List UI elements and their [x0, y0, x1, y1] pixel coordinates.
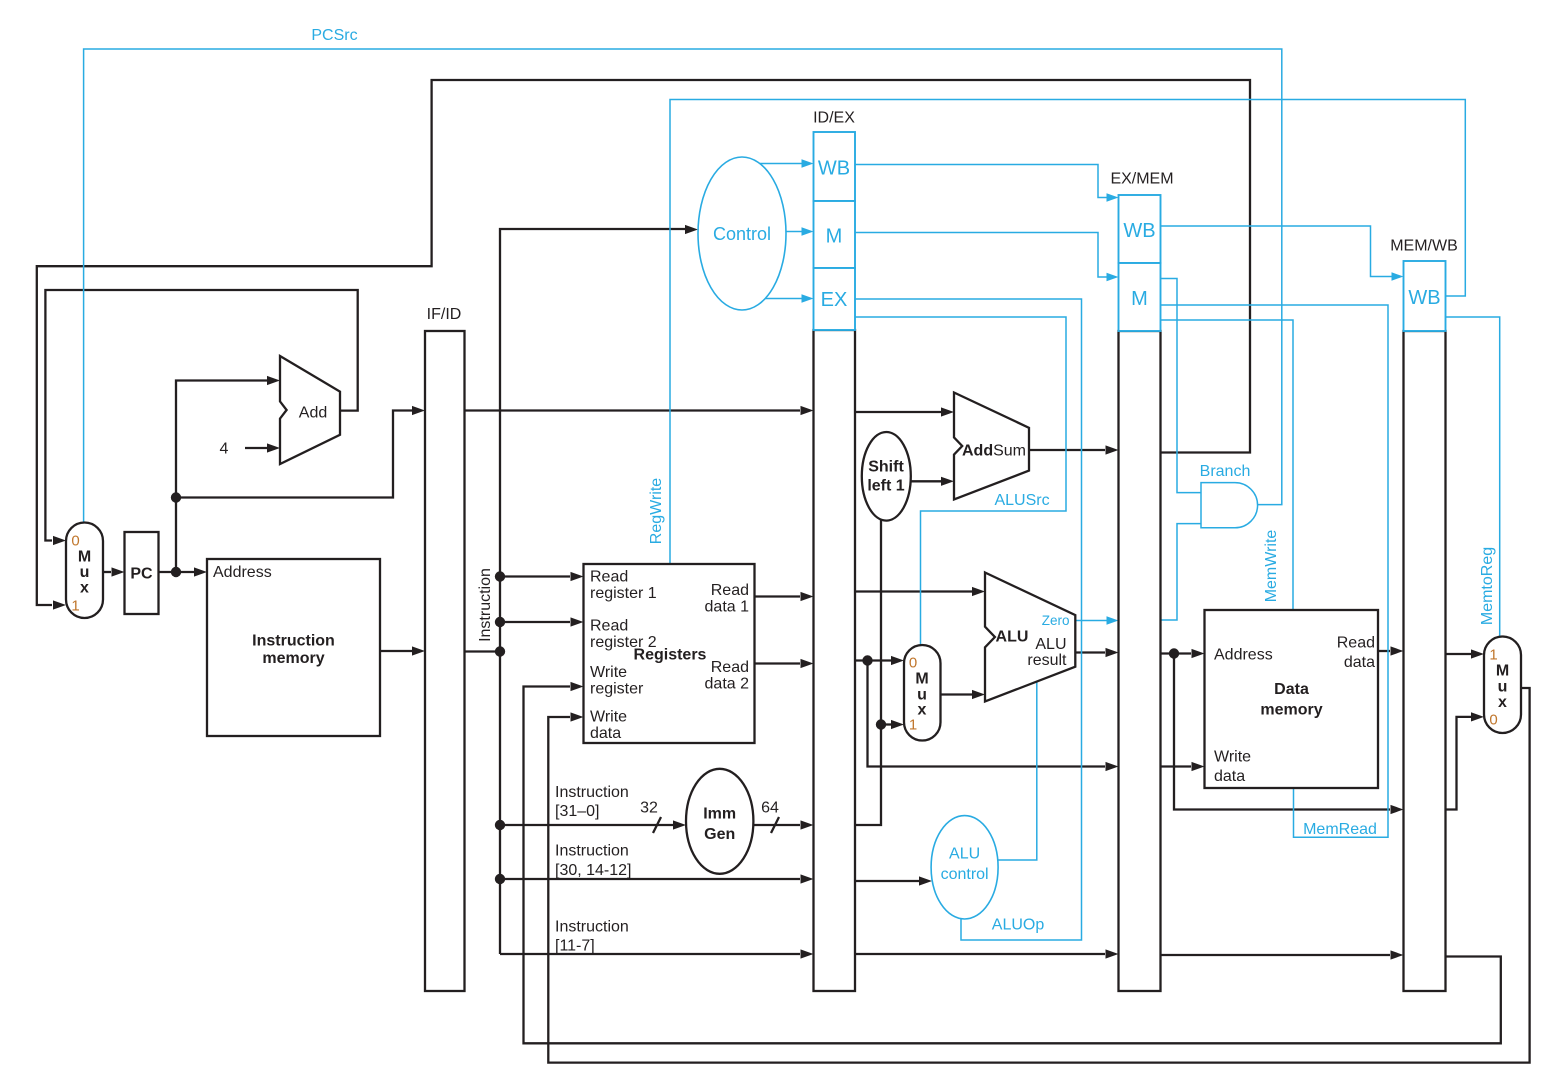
wire Instruction [31-0] to Imm Gen — [500, 824, 673, 826]
svg-text:data: data — [1214, 768, 1245, 785]
wire WB (blue): ID/EX to EX/MEM — [855, 165, 1107, 198]
wire MemRead (blue): EX/MEM M to Data memory — [1161, 305, 1389, 837]
wire Branch (blue): EX/MEM M to AND gate — [1161, 279, 1202, 493]
alu: main ALU — [985, 573, 1075, 702]
svg-text:Address: Address — [1214, 647, 1273, 664]
svg-text:PC: PC — [130, 566, 153, 583]
svg-text:PCSrc: PCSrc — [311, 27, 357, 44]
wire Instruction [11-7] to ID/EX — [500, 953, 800, 955]
wire branch-target: EX/MEM to PC mux input 1 — [37, 80, 1250, 605]
ellipse: Imm Gen — [686, 769, 753, 874]
svg-text:Registers: Registers — [634, 647, 707, 664]
wire Instruction [11-7]: EX/MEM to MEM/WB — [1161, 954, 1391, 956]
register ID/EX M section (blue) — [814, 201, 856, 268]
svg-text:memory: memory — [262, 650, 324, 667]
svg-text:AddSum: AddSum — [962, 443, 1026, 460]
wire MemWrite (blue): EX/MEM M to Data memory — [1161, 320, 1294, 612]
node: instruction bus junction (read reg 1) — [495, 571, 505, 581]
svg-text:Control: Control — [713, 224, 771, 244]
svg-text:MemRead: MemRead — [1303, 821, 1377, 838]
svg-text:result: result — [1027, 652, 1067, 669]
wire: Shift left 1 to Add Sum — [911, 480, 941, 482]
svg-text:ID/EX: ID/EX — [813, 110, 855, 127]
svg-text:MemtoReg: MemtoReg — [1479, 547, 1496, 625]
svg-text:0: 0 — [909, 655, 917, 672]
wire PCSrc (blue): branch AND gate to PC mux select — [84, 49, 1282, 524]
wire PC+4: Add output to PC mux input 0 — [45, 290, 357, 541]
register PC — [125, 532, 159, 614]
svg-text:Read: Read — [711, 582, 749, 599]
wire write data: EX/MEM to Data memory — [1161, 765, 1192, 767]
wire Read data 1: Registers to ID/EX — [755, 595, 801, 597]
svg-text:Write: Write — [590, 664, 627, 681]
wire M (blue): ID/EX to EX/MEM — [855, 233, 1107, 278]
svg-text:Write: Write — [590, 709, 627, 726]
wire Instruction [11-7]: ID/EX to EX/MEM — [855, 953, 1105, 955]
wire Read data 2: Registers to ID/EX — [755, 662, 801, 664]
svg-text:u: u — [80, 564, 90, 581]
svg-text:Address: Address — [213, 564, 272, 581]
svg-text:ALU: ALU — [949, 846, 980, 863]
wire RegWrite (blue): MEM/WB WB to Registers — [670, 100, 1465, 567]
svg-text:[30, 14-12]: [30, 14-12] — [555, 862, 632, 879]
wire: Instruction memory to IF/ID — [380, 650, 412, 652]
wire ALU result: MEM/WB to mux input 0 — [1446, 717, 1472, 810]
register EX/MEM M section (blue) — [1119, 263, 1161, 331]
svg-text:memory: memory — [1260, 702, 1322, 719]
mux: ALUSrc mux — [904, 645, 941, 741]
wire (blue): ALU control to ALU — [998, 681, 1037, 861]
wire ALUOp (blue): ID/EX EX to ALU control — [855, 299, 1082, 940]
mux: write-back mux — [1484, 637, 1521, 734]
node: read data 2 junction — [862, 655, 872, 665]
register EX/MEM (black section) — [1119, 331, 1161, 991]
svg-text:EX/MEM: EX/MEM — [1110, 171, 1173, 188]
svg-text:1: 1 — [1489, 647, 1497, 664]
wire: PC to Instruction memory Address — [159, 571, 195, 573]
register ID/EX (black section) — [814, 330, 856, 991]
svg-text:1: 1 — [909, 717, 917, 734]
node: instruction bus junction (imm field) — [495, 820, 505, 830]
wire Instruction [30,14-12] to ID/EX — [500, 878, 800, 880]
svg-text:WB: WB — [818, 158, 850, 180]
svg-text:Read: Read — [590, 569, 628, 586]
svg-text:M: M — [915, 671, 928, 688]
register EX/MEM WB section (blue) — [1119, 195, 1161, 263]
svg-text:EX: EX — [821, 289, 848, 311]
wire ALU result: ALU to EX/MEM — [1075, 651, 1105, 653]
svg-text:control: control — [941, 866, 989, 883]
svg-text:32: 32 — [640, 800, 658, 817]
wire Zero (blue): EX/MEM to AND gate — [1161, 524, 1202, 620]
svg-text:ALUSrc: ALUSrc — [994, 492, 1049, 509]
svg-text:4: 4 — [220, 441, 229, 458]
svg-text:data: data — [1344, 654, 1375, 671]
svg-text:register: register — [590, 681, 644, 698]
wire: constant 4 into Add — [245, 447, 267, 449]
node: immediate junction — [876, 719, 886, 729]
svg-text:Add: Add — [299, 405, 327, 422]
wire: instruction to Read register 2 — [500, 621, 570, 623]
svg-text:IF/ID: IF/ID — [427, 306, 462, 323]
svg-text:Gen: Gen — [704, 826, 735, 843]
gate: Branch AND gate — [1201, 483, 1258, 528]
wire: Imm Gen to ID/EX — [753, 824, 800, 826]
wire Add Sum output to EX/MEM — [1029, 449, 1105, 451]
wire (blue): Control to ID/EX EX — [765, 298, 802, 300]
wire Read data 2: ID/EX to ALUSrc mux and to EX/MEM write data — [855, 659, 891, 661]
wire ALU result: EX/MEM to Data memory Address and to MEM/WB — [1161, 652, 1192, 654]
svg-text:data 2: data 2 — [705, 676, 750, 693]
node: ALU result junction — [1169, 648, 1179, 658]
svg-text:ALUOp: ALUOp — [992, 917, 1045, 934]
wire Write data: mux to Registers — [548, 688, 1529, 1063]
wire (blue): Control to ID/EX WB — [760, 163, 802, 165]
wire instruction: IF/ID output and vertical bus — [465, 650, 501, 652]
ellipse: Control unit — [698, 157, 786, 310]
node: instruction bus junction (IF/ID output) — [495, 646, 505, 656]
wire Write register: MEM/WB to Registers — [524, 687, 1501, 1044]
wire: ALUSrc mux to ALU — [941, 693, 973, 695]
svg-text:M: M — [1496, 663, 1509, 680]
wire Read data 1: ID/EX to ALU — [855, 590, 972, 592]
svg-text:Zero: Zero — [1042, 613, 1070, 628]
wire Zero (blue): ALU to EX/MEM — [1075, 620, 1107, 622]
svg-text:0: 0 — [1489, 712, 1497, 729]
svg-text:Imm: Imm — [703, 806, 736, 823]
svg-text:register 1: register 1 — [590, 585, 657, 602]
svg-text:Instruction: Instruction — [555, 784, 629, 801]
svg-text:x: x — [1498, 694, 1507, 711]
wire ALUSrc (blue): ID/EX EX to ALUSrc mux select — [855, 317, 1066, 646]
wire PC value: IF/ID to ID/EX — [465, 409, 801, 411]
node: PC feedback junction — [171, 492, 181, 502]
svg-text:M: M — [1131, 288, 1148, 310]
register MEM/WB (black section) — [1404, 331, 1446, 991]
svg-text:Read: Read — [590, 618, 628, 635]
wire: instruction to Read register 1 — [500, 575, 570, 577]
adder Add Sum (branch target) — [954, 393, 1029, 500]
svg-text:MemWrite: MemWrite — [1263, 530, 1280, 603]
svg-text:Data: Data — [1274, 681, 1309, 698]
wire PC value: ID/EX to Add Sum — [855, 411, 941, 413]
wire: PC to IF/ID — [176, 411, 412, 498]
svg-text:Instruction: Instruction — [555, 843, 629, 860]
svg-text:Instruction: Instruction — [477, 568, 494, 642]
adder Add (PC+4) — [280, 356, 340, 464]
svg-text:M: M — [826, 226, 843, 248]
svg-text:ALU: ALU — [996, 629, 1029, 646]
svg-text:[11-7]: [11-7] — [555, 938, 595, 955]
block: Instruction memory — [207, 559, 380, 736]
register MEM/WB WB section (blue) — [1404, 261, 1446, 331]
register ID/EX EX section (blue) — [814, 268, 856, 330]
register ID/EX WB section (blue) — [814, 132, 856, 201]
register IF/ID — [425, 331, 465, 991]
wire Read data: MEM/WB to mux input 1 — [1446, 653, 1472, 655]
wire: PC mux output to PC — [103, 571, 111, 573]
wire funct: ID/EX to ALU control — [855, 880, 919, 882]
block: Data memory — [1205, 610, 1379, 788]
svg-text:data: data — [590, 725, 621, 742]
svg-text:x: x — [918, 702, 927, 719]
svg-text:RegWrite: RegWrite — [648, 478, 665, 544]
svg-text:ALU: ALU — [1035, 636, 1066, 653]
node: PC output junction — [171, 567, 181, 577]
svg-text:Branch: Branch — [1200, 463, 1251, 480]
svg-text:u: u — [1498, 679, 1508, 696]
mux: PC source mux — [66, 523, 103, 619]
block: Registers — [584, 564, 755, 743]
svg-text:M: M — [78, 549, 91, 566]
svg-text:Read: Read — [1337, 635, 1375, 652]
svg-text:Instruction: Instruction — [252, 633, 335, 650]
wire (blue): Control to ID/EX M — [786, 231, 802, 233]
svg-text:WB: WB — [1408, 287, 1440, 309]
svg-text:left 1: left 1 — [867, 478, 904, 495]
node: instruction bus junction (funct field) — [495, 874, 505, 884]
svg-text:64: 64 — [761, 800, 779, 817]
wire immediate: ID/EX to Shift left 1 and ALUSrc mux input 1 — [855, 518, 881, 825]
ellipse: Shift left 1 — [862, 432, 911, 521]
svg-text:0: 0 — [71, 533, 79, 550]
wire MemtoReg (blue): MEM/WB WB to mux select — [1446, 317, 1500, 638]
svg-text:1: 1 — [71, 598, 79, 615]
svg-text:Read: Read — [711, 659, 749, 676]
svg-text:x: x — [80, 580, 89, 597]
ellipse: ALU control — [931, 816, 998, 919]
svg-text:Write: Write — [1214, 749, 1251, 766]
wire: PC up to Add input 1 — [176, 381, 267, 573]
svg-text:Shift: Shift — [868, 459, 904, 476]
svg-text:data 1: data 1 — [705, 599, 750, 616]
svg-text:WB: WB — [1123, 220, 1155, 242]
svg-text:MEM/WB: MEM/WB — [1390, 238, 1458, 255]
node: instruction bus junction (read reg 2) — [495, 617, 505, 627]
wire Read data: Data memory to MEM/WB — [1378, 650, 1390, 652]
wire WB (blue): EX/MEM to MEM/WB — [1161, 226, 1393, 277]
svg-text:[31–0]: [31–0] — [555, 803, 599, 820]
svg-text:Instruction: Instruction — [555, 919, 629, 936]
